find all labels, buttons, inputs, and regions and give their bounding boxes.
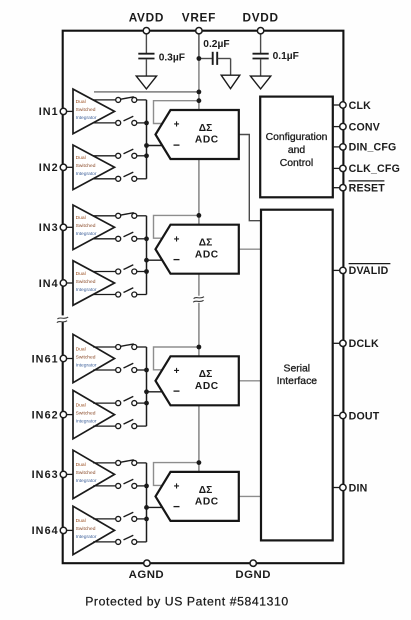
junction dot VREF staple U4 [197,460,202,465]
pin IN62 [60,411,66,417]
switch IN62 upper [93,402,116,404]
AVDD pin wire [145,33,147,53]
svg-text:ΔΣ: ΔΣ [199,123,212,134]
pin RESET [340,185,346,191]
junction dot VREF staple U3 [197,345,202,350]
svg-text:−: − [173,384,180,398]
wire VREF to + input of ADC U1 [154,101,199,124]
pin AVDD [143,28,149,34]
capacitor 0.1uF [253,53,269,55]
switch IN1 upper [93,99,116,101]
pin IN3 [60,224,66,230]
svg-text:ADC: ADC [195,249,219,260]
svg-text:Integrator: Integrator [76,115,97,121]
wire bus to - input of ADC U3 [147,391,164,393]
switch IN3 lower [93,238,116,240]
svg-text:IN4: IN4 [39,278,59,290]
junction dot VREF staple U1 [197,98,202,103]
svg-text:DCLK: DCLK [349,338,379,350]
wire bus to - input of ADC U2 [147,259,164,261]
svg-text:AVDD: AVDD [129,11,164,25]
wire IN2 pin to integrator [66,166,73,168]
svg-text:ADC: ADC [195,381,219,392]
svg-text:DOUT: DOUT [349,410,380,422]
svg-text:Switched: Switched [76,470,96,476]
svg-text:DIN: DIN [349,482,368,494]
wire output of ADC U3 to Serial Interface [239,380,261,382]
wire VREF to 0.2uF capacitor [199,58,212,60]
pin DOUT [340,412,346,418]
break marks on left border [60,315,65,322]
wire bus to - input of ADC U1 [147,145,164,147]
switch IN63 upper [93,462,116,464]
chip outline box [63,31,344,564]
dual switched integrator amp for IN3 [73,205,115,250]
svg-text:Switched: Switched [76,223,96,229]
dual switched integrator amp for IN61 [73,334,115,382]
block: Serial Interface [261,210,333,541]
wire bus to - input of ADC U4 [147,506,164,508]
svg-text:Switched: Switched [76,526,96,532]
junction dot VREF at reference rail [197,90,202,95]
svg-text:ΔΣ: ΔΣ [199,238,212,249]
switch IN63 lower [93,485,116,487]
pin IN63 [60,471,66,477]
junction dots on bus of U1 [144,121,149,126]
svg-text:Dual: Dual [76,155,86,161]
dual switched integrator amp for IN63 [73,450,115,498]
pin AGND [144,560,150,566]
ground symbol below 0.1uF [250,76,270,89]
pin DGND [250,560,256,566]
svg-text:−: − [173,253,180,267]
wire VREF to + input of ADC U2 [154,215,199,238]
svg-text:−: − [173,500,180,514]
wire DVALID pin [333,269,340,271]
svg-text:Serial: Serial [284,364,311,375]
svg-text:DGND: DGND [235,569,271,581]
pin IN2 [60,164,66,170]
capacitor 0.2uF [212,52,214,65]
summing bus for ADC U2 [146,216,148,295]
svg-text:IN61: IN61 [32,353,59,365]
svg-text:IN62: IN62 [32,409,59,421]
pin DVALID [340,267,346,273]
wire VREF vertical distribution line (lower segment) [198,303,200,472]
svg-text:RESET: RESET [349,183,386,195]
junction dot VREF staple U2 [197,213,202,218]
svg-text:DVALID: DVALID [349,265,389,277]
wire VREF vertical distribution line (upper segment) [198,59,200,296]
wire VREF to + input of ADC U4 [154,463,199,486]
junction dots on bus of U2 [144,236,149,241]
switch IN64 lower [93,541,116,543]
wire CONV pin [333,126,340,128]
svg-text:DIN_CFG: DIN_CFG [349,142,397,154]
VREF pin wire [198,33,200,59]
dual switched integrator amp for IN1 [73,89,115,134]
junction dot VREF at 0.2uF tap [197,56,202,61]
switch IN2 lower [93,178,116,180]
DVDD pin wire [260,33,262,53]
pin CONV [340,123,346,129]
wire CLK pin [333,104,340,106]
svg-text:Switched: Switched [76,163,96,169]
wire DIN pin [333,487,340,489]
svg-text:IN63: IN63 [32,469,59,481]
svg-text:Integrator: Integrator [76,362,97,368]
op-amp style delta-sigma ADC U4 [156,472,239,521]
op-amp style delta-sigma ADC U1 [156,110,239,159]
svg-text:Integrator: Integrator [76,231,97,237]
junction dots on bus of U3 [144,368,149,373]
svg-text:CONV: CONV [349,121,380,133]
svg-text:Dual: Dual [76,99,86,105]
switch IN2 upper [93,155,116,157]
svg-text:Switched: Switched [76,107,96,113]
svg-text:Integrator: Integrator [76,287,97,293]
pin VREF [196,28,202,34]
wire RESET pin [333,187,340,189]
svg-text:Integrator: Integrator [76,478,97,484]
pin DIN_CFG [340,144,346,150]
svg-text:IN2: IN2 [39,162,59,174]
svg-text:CLK_CFG: CLK_CFG [349,163,400,175]
svg-text:VREF: VREF [182,11,216,25]
svg-text:ADC: ADC [195,497,219,508]
svg-text:Dual: Dual [76,518,86,524]
wire output of ADC U1 to Serial Interface [239,135,261,221]
svg-text:IN64: IN64 [32,525,59,537]
svg-text:0.3µF: 0.3µF [159,52,185,63]
op-amp style delta-sigma ADC U2 [156,225,239,274]
svg-text:+: + [174,482,180,493]
svg-text:0.2µF: 0.2µF [203,39,229,50]
dual switched integrator amp for IN2 [73,145,115,190]
svg-text:Dual: Dual [76,462,86,468]
break marks on VREF line [194,297,204,299]
junction dots on bus of U4 [144,484,149,489]
switch IN61 upper [93,346,116,348]
svg-text:−: − [173,138,180,152]
dual switched integrator amp for IN4 [73,261,115,306]
svg-text:ADC: ADC [195,135,219,146]
svg-text:+: + [174,234,180,245]
svg-text:Configuration: Configuration [266,132,328,143]
svg-text:IN1: IN1 [39,106,59,118]
svg-text:Dual: Dual [76,271,86,277]
wire IN64 pin to integrator [66,529,73,531]
ground symbol below 0.2uF [221,75,240,88]
wire output of ADC U4 to Serial Interface [239,495,261,497]
svg-text:and: and [288,145,306,156]
svg-text:+: + [174,366,180,377]
wire IN62 pin to integrator [66,414,73,416]
pin DIN [340,484,346,490]
pin IN4 [60,280,66,286]
svg-text:ΔΣ: ΔΣ [199,369,212,380]
svg-text:Dual: Dual [76,215,86,221]
wire DOUT pin [333,415,340,417]
svg-text:ΔΣ: ΔΣ [199,485,212,496]
svg-text:0.1µF: 0.1µF [273,51,299,62]
svg-text:Integrator: Integrator [76,534,97,540]
summing bus for ADC U1 [146,100,148,179]
block: Configuration and Control [260,97,333,198]
wire IN4 pin to integrator [66,282,73,284]
switch IN1 lower [93,122,116,124]
switch IN61 lower [93,369,116,371]
svg-text:+: + [174,120,180,131]
summing bus for ADC U3 [146,347,148,426]
pin IN61 [60,355,66,361]
wire reference rail to IN1 integrator [94,91,199,93]
svg-text:Integrator: Integrator [76,418,97,424]
op-amp style delta-sigma ADC U3 [156,356,239,405]
svg-text:DVDD: DVDD [242,11,278,25]
pin IN64 [60,527,66,533]
wire IN3 pin to integrator [66,226,73,228]
wire IN61 pin to integrator [66,358,73,360]
svg-text:IN3: IN3 [39,222,59,234]
wire IN63 pin to integrator [66,473,73,475]
summing bus for ADC U4 [146,463,148,542]
pin DVDD [257,28,263,34]
svg-text:CLK: CLK [349,100,372,112]
svg-text:Switched: Switched [76,279,96,285]
svg-text:AGND: AGND [129,569,165,581]
svg-text:Dual: Dual [76,402,86,408]
pin IN1 [60,108,66,114]
svg-text:Switched: Switched [76,410,96,416]
dual switched integrator amp for IN62 [73,390,115,438]
wire CLK_CFG pin [333,167,340,169]
wire IN1 pin to integrator [66,110,73,112]
switch IN4 lower [93,294,116,296]
wire output of ADC U2 to Serial Interface [239,248,261,250]
svg-text:Protected by US Patent #584131: Protected by US Patent #5841310 [85,594,289,608]
dual switched integrator amp for IN64 [73,506,115,554]
svg-text:Switched: Switched [76,354,96,360]
switch IN4 upper [93,271,116,273]
switch IN62 lower [93,425,116,427]
wire VREF to + input of ADC U3 [154,347,199,370]
svg-text:Integrator: Integrator [76,171,97,177]
wire DCLK pin [333,342,340,344]
pin DCLK [340,340,346,346]
switch IN3 upper [93,215,116,217]
svg-text:Control: Control [280,158,314,169]
capacitor 0.3uF [138,53,154,55]
wire DIN_CFG pin [333,146,340,148]
switch IN64 upper [93,518,116,520]
ground symbol below 0.3uF [136,76,156,89]
pin CLK [340,102,346,108]
svg-text:Interface: Interface [277,376,318,387]
svg-text:Dual: Dual [76,346,86,352]
pin CLK_CFG [340,165,346,171]
